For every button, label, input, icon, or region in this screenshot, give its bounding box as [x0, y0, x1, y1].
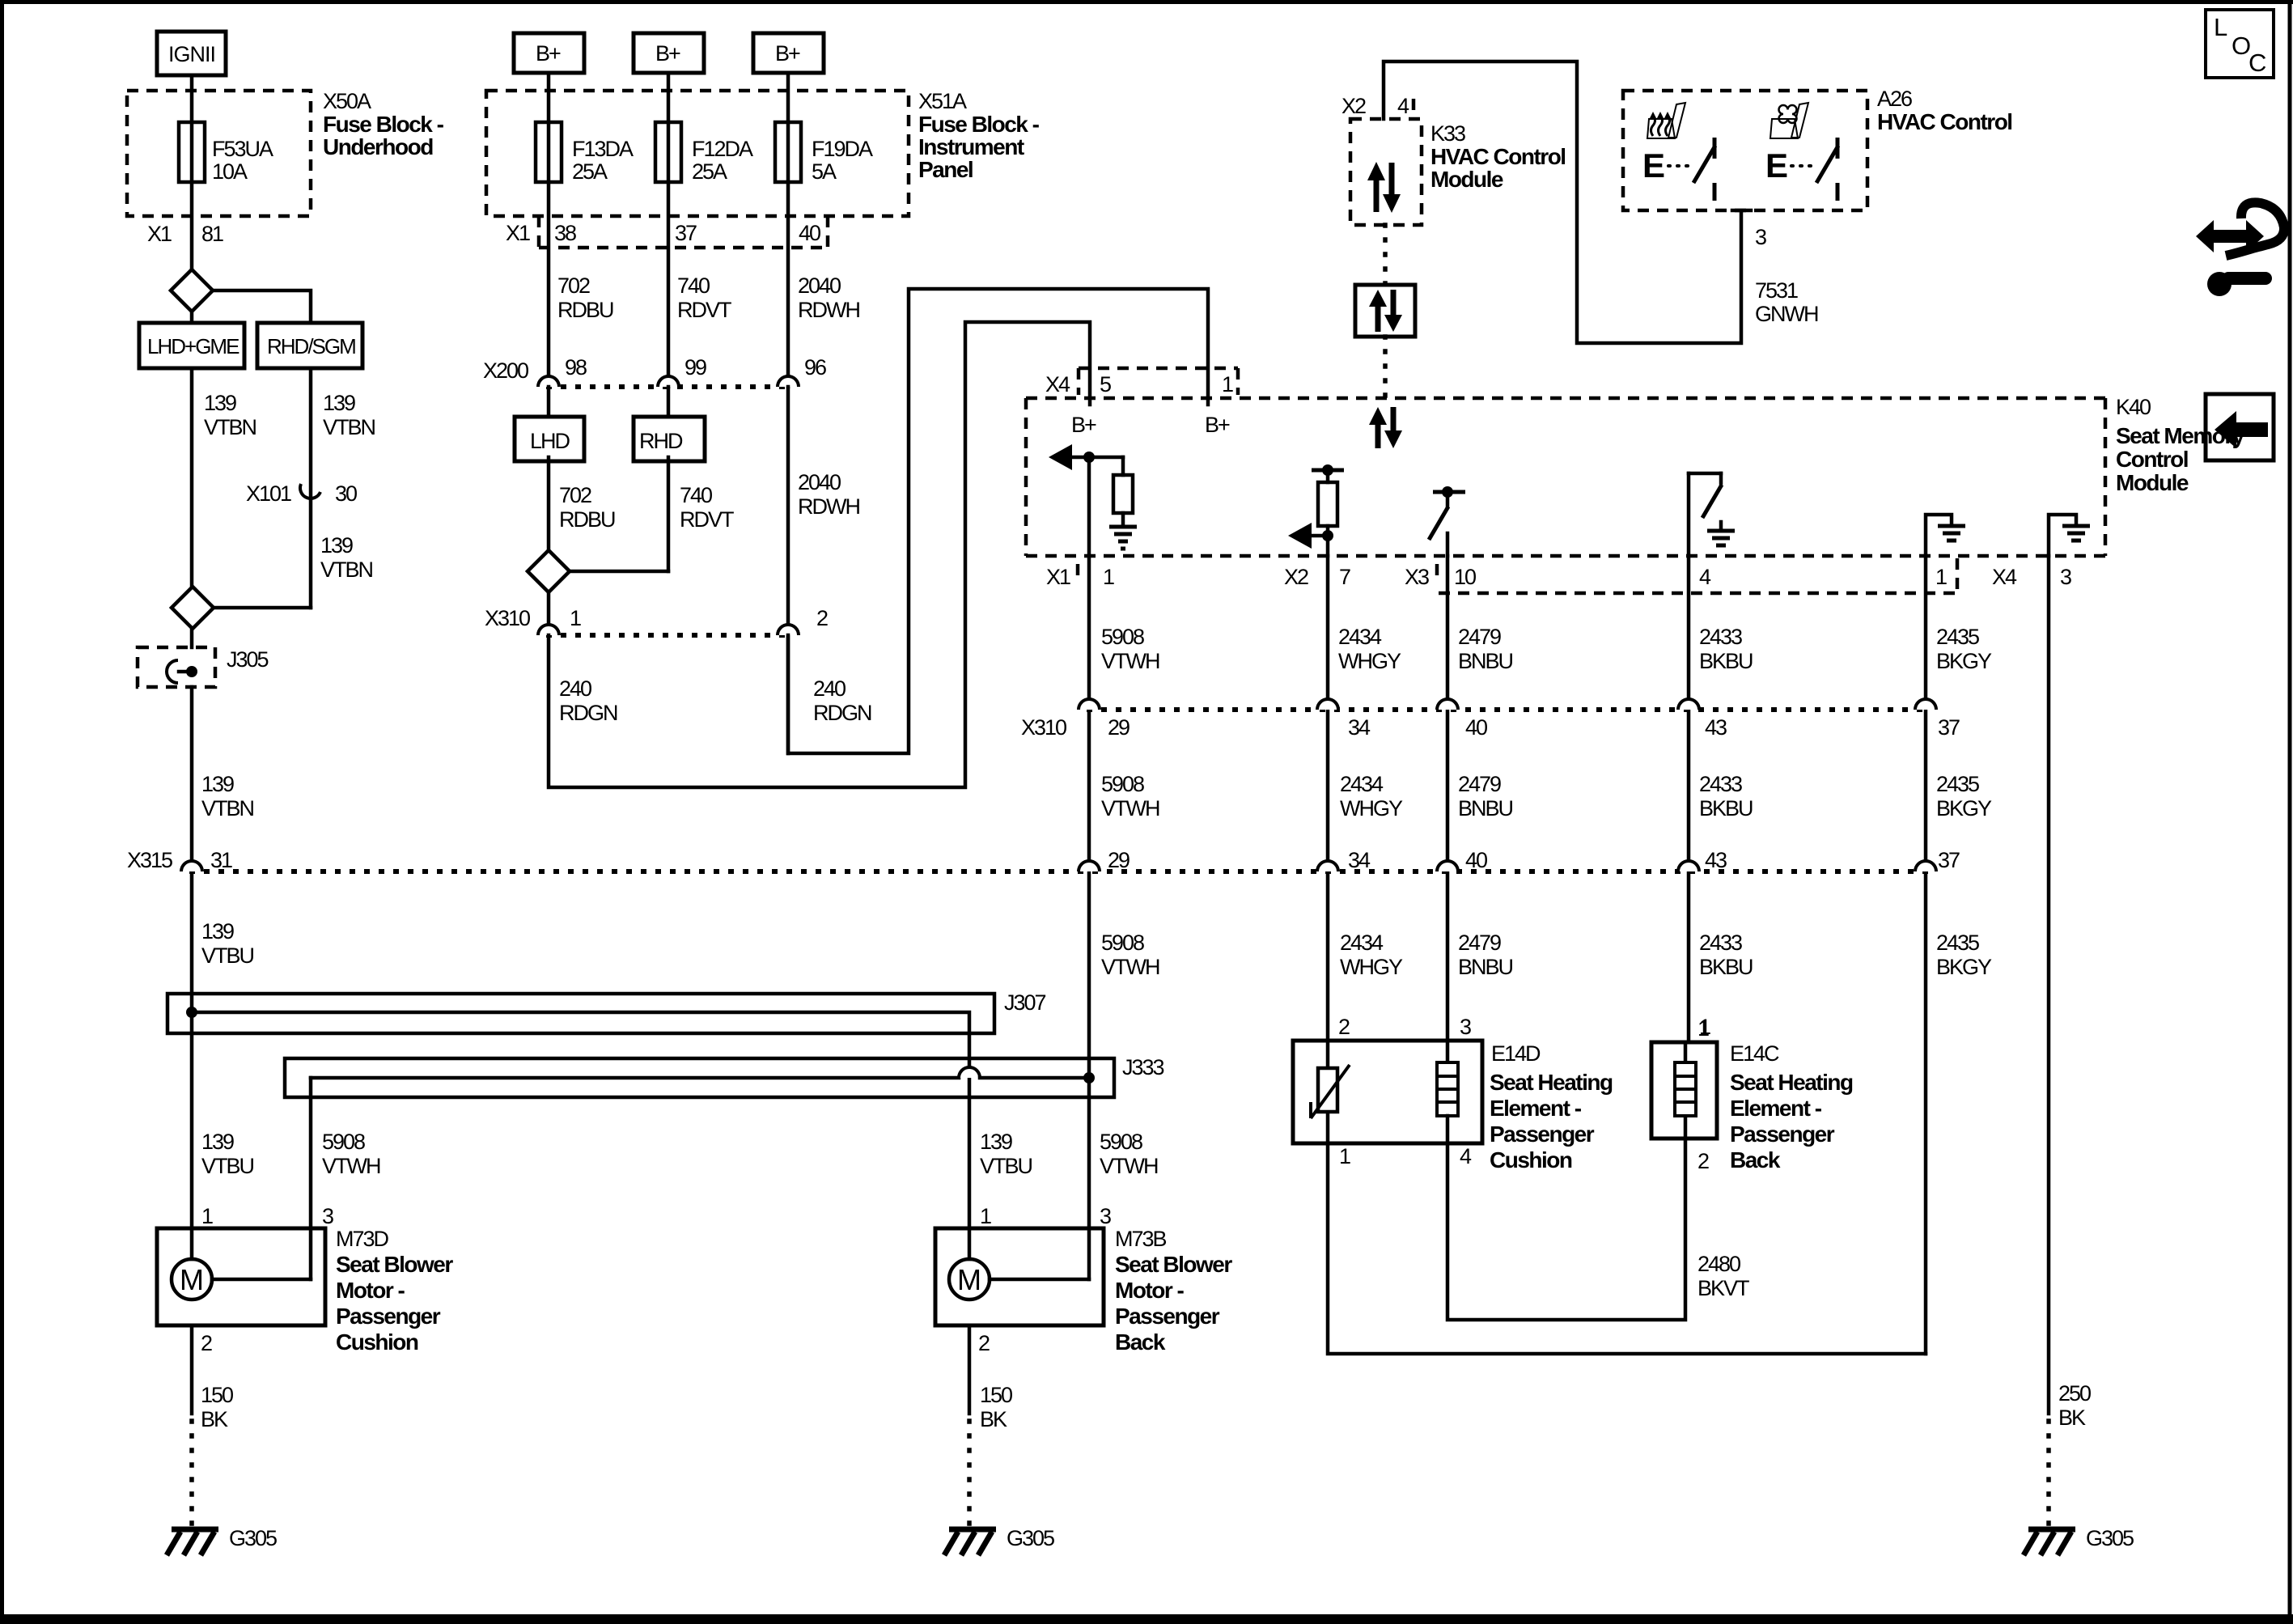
fuse F19DA 5A [775, 122, 873, 184]
svg-text:240: 240 [813, 676, 846, 701]
internal node with left arrow (B+ feed) [1049, 444, 1123, 470]
power symbol IGNII [157, 32, 226, 75]
svg-text:740: 740 [677, 273, 710, 298]
svg-text:BK: BK [201, 1407, 228, 1431]
svg-text:3: 3 [1100, 1204, 1111, 1228]
svg-text:X51A: X51A [918, 89, 967, 113]
option box LHD [515, 417, 584, 461]
svg-text:Seat Blower: Seat Blower [336, 1252, 453, 1277]
svg-text:1: 1 [1222, 372, 1233, 396]
wire 740 RDVT [677, 273, 731, 322]
svg-text:2040: 2040 [798, 273, 841, 298]
svg-text:X101: X101 [246, 481, 291, 506]
svg-text:98: 98 [565, 355, 587, 379]
internal resistor R2 with top terminal [1312, 464, 1344, 556]
svg-text:BNBU: BNBU [1458, 796, 1513, 820]
harness branch icon [2196, 202, 2284, 296]
svg-text:Fuse Block -: Fuse Block - [918, 112, 1040, 137]
svg-text:2435: 2435 [1936, 772, 1979, 796]
wire diamond to J305 [190, 629, 194, 647]
svg-text:2435: 2435 [1936, 931, 1979, 955]
svg-text:2: 2 [1697, 1149, 1709, 1173]
svg-text:B+: B+ [536, 41, 561, 66]
switch 2 (ventilated seat) with E actuator [1765, 138, 1838, 201]
svg-text:5908: 5908 [1101, 772, 1144, 796]
internal ground (X4-3) [2049, 515, 2090, 556]
svg-text:Cushion: Cushion [336, 1329, 418, 1355]
svg-text:RDWH: RDWH [798, 298, 859, 322]
svg-text:RDGN: RDGN [813, 701, 871, 725]
wire 2433 BKBU (X3-4) [1689, 556, 1753, 1042]
svg-text:1: 1 [1935, 565, 1947, 589]
svg-text:40: 40 [1465, 848, 1487, 872]
svg-text:LHD: LHD [530, 429, 570, 453]
svg-text:BKGY: BKGY [1936, 649, 1992, 673]
svg-text:Motor -: Motor - [1115, 1278, 1185, 1303]
wire 139 VTBN below X101 [320, 533, 373, 582]
svg-text:E14D: E14D [1491, 1041, 1541, 1066]
module A26 dashed box [1623, 91, 1867, 210]
svg-text:3: 3 [1460, 1015, 1471, 1039]
svg-text:Instrument: Instrument [918, 134, 1024, 159]
power symbol B+ (2) [634, 33, 704, 73]
wire B+ to F19DA [786, 73, 790, 387]
option box RHD/SGM [257, 323, 362, 368]
svg-text:X4: X4 [1045, 372, 1070, 396]
svg-text:Seat Heating: Seat Heating [1730, 1070, 1853, 1095]
svg-text:2434: 2434 [1340, 931, 1384, 955]
heater element symbol inside E14D [1437, 1041, 1458, 1116]
svg-text:38: 38 [554, 221, 576, 245]
svg-text:WHGY: WHGY [1340, 955, 1403, 979]
svg-text:J333: J333 [1122, 1055, 1164, 1079]
motor M73D [157, 1228, 325, 1325]
svg-text:RDVT: RDVT [677, 298, 731, 322]
svg-text:139: 139 [201, 919, 234, 943]
wire 702 RDBU [557, 273, 613, 322]
wire E14D pin1 to X3-1 loop (2435 BKGY return) [1328, 1143, 1926, 1354]
wire B+ to F13DA [547, 73, 551, 387]
connector X2 pin 4 labels [1341, 94, 1414, 118]
connector X310 pins 1 2 [485, 606, 828, 635]
svg-text:RDVT: RDVT [680, 507, 734, 532]
power symbol B+ (1) [514, 33, 584, 73]
svg-text:GNWH: GNWH [1755, 302, 1818, 326]
svg-text:VTBN: VTBN [323, 415, 375, 439]
wire 240 RDGN from X310-2 [788, 289, 1208, 753]
switch 1 (heated seat) with E actuator [1642, 138, 1715, 201]
motor M73B [935, 1228, 1104, 1325]
LOC legend box [2206, 10, 2274, 78]
svg-text:E14C: E14C [1730, 1041, 1779, 1066]
svg-text:1: 1 [201, 1204, 213, 1228]
svg-text:3: 3 [322, 1204, 333, 1228]
svg-text:M: M [180, 1263, 204, 1296]
wire diamond to LHD+GME [190, 312, 194, 323]
wire B+ to F12DA [667, 73, 671, 387]
label E14D Seat Heating Element - Passenger Cushion [1490, 1041, 1613, 1172]
svg-text:J305: J305 [227, 647, 269, 672]
svg-text:150: 150 [980, 1383, 1012, 1407]
label K40 Seat Memory Control Module [2116, 395, 2245, 495]
svg-text:34: 34 [1348, 715, 1371, 740]
thermistor inside E14D [1311, 1041, 1350, 1143]
svg-text:HVAC Control: HVAC Control [1877, 109, 2012, 134]
svg-text:X1: X1 [147, 222, 172, 246]
svg-text:BKGY: BKGY [1936, 955, 1992, 979]
svg-text:BK: BK [980, 1407, 1007, 1431]
svg-text:139: 139 [201, 772, 234, 796]
svg-text:2479: 2479 [1458, 625, 1501, 649]
connector X315 row pins 31 29 34 40 43 37 [181, 848, 1960, 872]
svg-text:Back: Back [1730, 1147, 1781, 1172]
svg-text:VTBU: VTBU [201, 943, 254, 968]
svg-text:3: 3 [1755, 225, 1766, 249]
splice J333 [285, 1055, 1164, 1228]
svg-text:Back: Back [1115, 1329, 1166, 1355]
fuse block underhood X50A dashed box [127, 91, 311, 216]
svg-text:1: 1 [1697, 1016, 1709, 1041]
svg-text:25A: 25A [692, 159, 727, 184]
E14C pin labels [1697, 1016, 1709, 1173]
svg-text:VTBU: VTBU [980, 1154, 1032, 1178]
wire 2479 BNBU (X3-10) [1447, 556, 1513, 1041]
connector X310 row pins 29 34 40 43 37 [1021, 699, 1960, 740]
wire B+ node down to X1-1 [1087, 457, 1091, 556]
svg-text:F13DA: F13DA [572, 137, 634, 161]
fuse block instrument panel X51A dashed box [486, 91, 909, 216]
svg-text:2: 2 [978, 1331, 990, 1355]
label M73B Seat Blower Motor - Passenger Back [1115, 1227, 1232, 1355]
svg-text:VTBN: VTBN [204, 415, 256, 439]
option box RHD [634, 417, 705, 461]
svg-text:X1: X1 [506, 221, 530, 245]
wire 250 BK X4-3 to G305 [2049, 1381, 2091, 1524]
svg-text:VTWH: VTWH [1101, 649, 1159, 673]
svg-text:4: 4 [1699, 565, 1711, 589]
internal node with left arrow (X2-7) [1288, 523, 1333, 549]
svg-text:F12DA: F12DA [692, 137, 753, 161]
svg-text:37: 37 [675, 221, 697, 245]
fuse F53UA 10A [179, 122, 273, 184]
svg-text:RDBU: RDBU [559, 507, 615, 532]
svg-text:X315: X315 [127, 848, 172, 872]
svg-text:LHD+GME: LHD+GME [147, 334, 239, 358]
svg-text:BNBU: BNBU [1458, 955, 1513, 979]
internal resistor R1 [1113, 457, 1133, 513]
label X50A Fuse Block - Underhood [323, 89, 444, 159]
serial data arrows inside K40 top [1369, 407, 1402, 448]
svg-text:5A: 5A [812, 159, 837, 184]
svg-text:1: 1 [1103, 565, 1114, 589]
node: diamond splice S2 [172, 587, 311, 629]
svg-text:7: 7 [1339, 565, 1350, 589]
wire X200 to LHD box [547, 387, 551, 417]
option box LHD+GME [139, 323, 244, 368]
serial data arrows inside K33 [1367, 162, 1401, 213]
connector X4 strip pins 5 1 [1045, 368, 1238, 396]
svg-text:IGNII: IGNII [168, 42, 215, 66]
wire diamond to RHD/SGM [213, 290, 311, 323]
node: diamond splice S3 LHD/RHD merge [528, 550, 668, 592]
label X51A Fuse Block - Instrument Panel [918, 89, 1040, 182]
A26 pin 3 stub [1732, 210, 1766, 249]
connector X1 strip pins 38 37 40 [506, 216, 828, 248]
svg-text:M73D: M73D [336, 1227, 389, 1251]
svg-text:2: 2 [201, 1331, 212, 1355]
svg-text:RDGN: RDGN [559, 701, 617, 725]
svg-text:Passenger: Passenger [1115, 1304, 1220, 1329]
wire 2435 BKGY (X3-1) [1926, 556, 1992, 1354]
svg-text:G305: G305 [1007, 1526, 1054, 1550]
svg-text:5: 5 [1100, 372, 1111, 396]
svg-text:2433: 2433 [1699, 772, 1742, 796]
svg-text:L: L [2214, 13, 2227, 41]
svg-text:VTWH: VTWH [322, 1154, 380, 1178]
fuse F13DA 25A [536, 122, 634, 184]
svg-text:10: 10 [1454, 565, 1476, 589]
svg-text:Fuse Block -: Fuse Block - [323, 112, 444, 137]
fuse F12DA 25A [655, 122, 753, 184]
svg-text:7531: 7531 [1755, 278, 1798, 303]
internal ground (X3-1) [1926, 515, 1965, 556]
connector X315 pin 31 [127, 848, 232, 872]
svg-text:RDWH: RDWH [798, 494, 859, 519]
connector X101 pin 30 [246, 481, 357, 506]
svg-text:X50A: X50A [323, 89, 371, 113]
svg-text:Cushion: Cushion [1490, 1147, 1572, 1172]
svg-text:VTWH: VTWH [1100, 1154, 1158, 1178]
svg-text:Panel: Panel [918, 157, 973, 182]
svg-text:1: 1 [570, 606, 581, 630]
label M73D Seat Blower Motor - Passenger Cushion [336, 1227, 453, 1355]
wire diamond to X310-1 [547, 592, 551, 635]
K40 bottom pin labels X1 X2 X3 X4 [1046, 558, 2071, 593]
svg-text:2479: 2479 [1458, 772, 1501, 796]
boxed serial data symbol [1355, 285, 1415, 337]
connector X200 pins 98 99 96 [483, 355, 826, 387]
svg-text:E: E [1765, 146, 1788, 184]
svg-text:4: 4 [1397, 94, 1409, 118]
svg-text:1: 1 [980, 1204, 991, 1228]
svg-text:2435: 2435 [1936, 625, 1979, 649]
svg-text:139: 139 [323, 391, 355, 415]
svg-text:30: 30 [335, 481, 357, 506]
svg-text:740: 740 [680, 483, 712, 507]
svg-text:40: 40 [799, 221, 820, 245]
svg-text:BKVT: BKVT [1697, 1276, 1749, 1300]
wire 2040 RDWH [798, 273, 859, 322]
svg-text:139: 139 [980, 1130, 1012, 1154]
svg-text:240: 240 [559, 676, 591, 701]
connector X1 pin 81 [147, 222, 223, 246]
wire 139 VTBN right leg [311, 368, 375, 608]
wire 702 RDBU LHD to diamond [549, 457, 615, 550]
svg-text:M73B: M73B [1115, 1227, 1167, 1251]
svg-text:A26: A26 [1877, 87, 1912, 111]
svg-text:81: 81 [201, 222, 223, 246]
svg-text:2040: 2040 [798, 470, 841, 494]
svg-text:Passenger: Passenger [336, 1304, 441, 1329]
internal switch SW2 to ground (X3-4) [1689, 473, 1735, 556]
power symbol B+ (3) [753, 33, 824, 73]
svg-text:25A: 25A [572, 159, 608, 184]
splice J305 [138, 647, 269, 687]
svg-text:99: 99 [685, 355, 706, 379]
svg-text:Seat Heating: Seat Heating [1490, 1070, 1613, 1095]
heating element E14C box [1651, 1042, 1717, 1138]
svg-text:Element -: Element - [1730, 1096, 1822, 1121]
svg-text:RHD/SGM: RHD/SGM [267, 334, 355, 358]
svg-text:WHGY: WHGY [1338, 649, 1401, 673]
wire 139 VTBU J307 to M73D [201, 1130, 254, 1228]
svg-text:5908: 5908 [322, 1130, 365, 1154]
node: diamond splice S1 [171, 269, 213, 312]
internal switch SW1 (X3-10) [1429, 486, 1465, 556]
svg-text:HVAC Control: HVAC Control [1430, 144, 1566, 169]
svg-text:G305: G305 [229, 1526, 277, 1550]
svg-text:G305: G305 [2086, 1526, 2134, 1550]
svg-text:2: 2 [816, 606, 828, 630]
svg-text:VTWH: VTWH [1101, 796, 1159, 820]
svg-text:29: 29 [1108, 715, 1130, 740]
wire E14D pin4 to E14C pin2 (2480 BKVT) [1447, 1116, 1749, 1320]
svg-text:Passenger: Passenger [1730, 1122, 1835, 1147]
wire labels M73B pins [980, 1130, 1032, 1228]
svg-text:X2: X2 [1341, 94, 1366, 118]
svg-text:K33: K33 [1430, 121, 1465, 146]
svg-text:B+: B+ [775, 41, 800, 66]
svg-text:X200: X200 [483, 358, 528, 383]
svg-text:VTBN: VTBN [320, 558, 373, 582]
svg-text:X2: X2 [1284, 565, 1308, 589]
svg-text:Control: Control [2116, 447, 2188, 472]
svg-text:Motor -: Motor - [336, 1278, 405, 1303]
svg-text:2433: 2433 [1699, 931, 1742, 955]
svg-text:702: 702 [559, 483, 591, 507]
wire IGNII to fuse F53UA [190, 75, 194, 269]
svg-text:C: C [2248, 49, 2266, 77]
svg-text:VTBN: VTBN [201, 796, 254, 820]
icon heated seat [1647, 103, 1685, 138]
label A26 HVAC Control [1877, 87, 2012, 134]
svg-text:F19DA: F19DA [812, 137, 873, 161]
ground G305 (right) [2024, 1526, 2134, 1555]
svg-text:BKBU: BKBU [1699, 649, 1753, 673]
wire X200 to RHD box [667, 387, 671, 417]
svg-text:250: 250 [2058, 1381, 2091, 1406]
svg-text:31: 31 [210, 848, 232, 872]
svg-text:5908: 5908 [1101, 931, 1144, 955]
svg-text:BNBU: BNBU [1458, 649, 1513, 673]
svg-text:Module: Module [1430, 167, 1503, 192]
heating element E14D box [1293, 1041, 1482, 1143]
sheet-reference arrow box [2206, 394, 2274, 460]
svg-text:139: 139 [204, 391, 236, 415]
ground G305 (middle) [944, 1526, 1054, 1555]
svg-text:139: 139 [320, 533, 353, 558]
wire labels M73D pins [322, 1130, 380, 1228]
svg-text:B+: B+ [1071, 413, 1096, 437]
svg-text:40: 40 [1465, 715, 1487, 740]
svg-text:E: E [1642, 146, 1665, 184]
wire 7531 GNWH labels [1755, 278, 1818, 326]
svg-text:Element -: Element - [1490, 1096, 1582, 1121]
svg-text:K40: K40 [2116, 395, 2151, 419]
svg-text:X3: X3 [1405, 565, 1429, 589]
svg-text:150: 150 [201, 1383, 233, 1407]
svg-text:3: 3 [2060, 565, 2071, 589]
svg-text:139: 139 [201, 1130, 234, 1154]
svg-text:702: 702 [557, 273, 590, 298]
wire 2434 WHGY (X2-7) [1328, 556, 1403, 1041]
svg-text:RHD: RHD [639, 429, 683, 453]
svg-text:2479: 2479 [1458, 931, 1501, 955]
label K33 HVAC Control Module [1430, 121, 1566, 192]
wire 139 VTBU X315 to J307 [201, 919, 254, 968]
svg-text:BK: BK [2058, 1406, 2086, 1430]
svg-text:Module: Module [2116, 470, 2189, 495]
svg-text:X1: X1 [1046, 565, 1070, 589]
svg-text:BKGY: BKGY [1936, 796, 1992, 820]
svg-text:2480: 2480 [1697, 1252, 1740, 1276]
svg-text:5908: 5908 [1101, 625, 1144, 649]
serial data dotted link to K40 [1383, 337, 1388, 398]
svg-text:43: 43 [1705, 715, 1727, 740]
svg-text:4: 4 [1460, 1144, 1472, 1168]
svg-text:WHGY: WHGY [1340, 796, 1403, 820]
svg-text:2434: 2434 [1338, 625, 1382, 649]
svg-text:29: 29 [1108, 848, 1130, 872]
svg-text:Underhood: Underhood [323, 134, 433, 159]
splice J307 [167, 990, 1046, 1228]
svg-text:Seat Blower: Seat Blower [1115, 1252, 1232, 1277]
svg-text:34: 34 [1348, 848, 1371, 872]
ground G305 (left) [167, 1526, 277, 1555]
svg-text:96: 96 [804, 355, 826, 379]
svg-text:X310: X310 [1021, 715, 1066, 740]
wire 5908 VTWH (X1-1) [1089, 556, 1159, 1279]
svg-text:43: 43 [1705, 848, 1727, 872]
internal ground below R1 [1109, 513, 1137, 549]
svg-text:VTWH: VTWH [1101, 955, 1159, 979]
wire 2040 RDWH X200 down [788, 387, 859, 753]
wire M73B pin2 to G305 [969, 1325, 1012, 1524]
svg-text:1: 1 [1339, 1144, 1350, 1168]
svg-text:BKBU: BKBU [1699, 955, 1753, 979]
svg-text:RDBU: RDBU [557, 298, 613, 322]
heater element symbol inside E14C [1675, 1042, 1696, 1138]
svg-text:J307: J307 [1004, 990, 1046, 1015]
wire X4-3 to G305 [2047, 556, 2051, 1414]
svg-text:37: 37 [1938, 848, 1960, 872]
svg-text:B+: B+ [655, 41, 680, 66]
svg-text:B+: B+ [1205, 413, 1230, 437]
wire 139 VTBN J305 to X315 [192, 687, 254, 1228]
svg-text:BKBU: BKBU [1699, 796, 1753, 820]
serial data dotted link K33 down [1383, 225, 1388, 285]
module K40 dashed box [1026, 398, 2105, 556]
svg-text:X310: X310 [485, 606, 530, 630]
svg-text:F53UA: F53UA [212, 137, 273, 161]
wire 740 RDVT RHD down [668, 457, 734, 571]
icon ventilated seat [1770, 103, 1808, 138]
svg-text:2: 2 [1338, 1015, 1350, 1039]
wire M73D pin2 to G305 [192, 1325, 233, 1524]
svg-text:VTBU: VTBU [201, 1154, 254, 1178]
wire 139 VTBN left leg [192, 368, 256, 587]
svg-text:37: 37 [1938, 715, 1960, 740]
